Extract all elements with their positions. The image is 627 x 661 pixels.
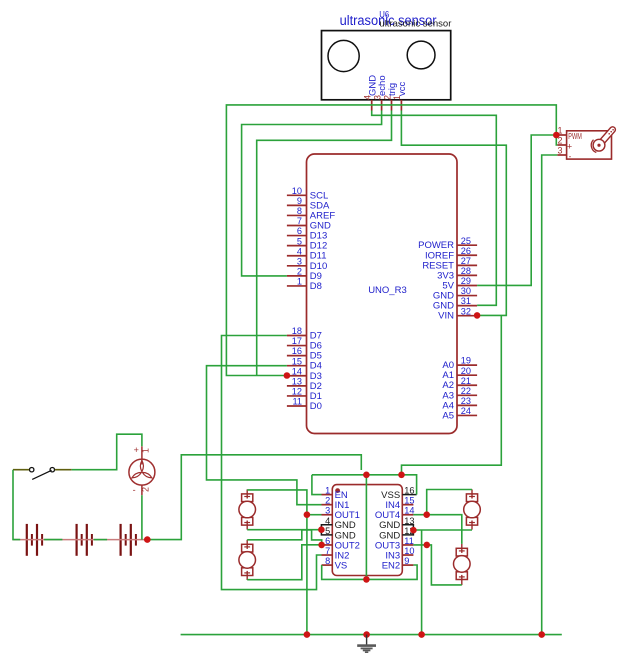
wire driver OUT1 stub link xyxy=(307,514,322,516)
svg-text:+: + xyxy=(134,445,139,455)
svg-text:2: 2 xyxy=(297,266,302,276)
UNO pin 13 (D2) stub xyxy=(287,385,307,387)
svg-text:9: 9 xyxy=(404,556,409,566)
svg-text:14: 14 xyxy=(404,506,414,516)
fan motor M5 blades xyxy=(140,461,143,472)
UNO pin 18 (D7) stub xyxy=(287,335,307,337)
svg-text:PWM: PWM xyxy=(568,131,582,141)
svg-text:30: 30 xyxy=(461,286,471,296)
svg-text:18: 18 xyxy=(292,326,302,336)
svg-text:15: 15 xyxy=(404,496,414,506)
wire motor M1+ to driver OUT1 xyxy=(247,490,307,515)
junction ground rail ground-symbol xyxy=(363,631,370,638)
svg-text:3: 3 xyxy=(557,145,562,155)
UNO pin 3 (D10) stub xyxy=(287,265,307,267)
UNO pin 26 (IOREF) stub xyxy=(457,254,477,256)
wire driver OUT1 to ground rail xyxy=(306,515,308,635)
svg-text:VIN: VIN xyxy=(438,311,454,322)
servo body xyxy=(567,131,612,159)
svg-text:ultrasonic sensor: ultrasonic sensor xyxy=(379,19,451,30)
svg-text:D0: D0 xyxy=(310,401,322,412)
driver pin 8 (VS) stub xyxy=(322,564,333,566)
wire motor M2+ bridge to OUT2 node xyxy=(247,530,322,545)
junction driver OUT2 pin xyxy=(318,542,325,549)
wire ground rail xyxy=(181,634,562,636)
UNO pin 29 (5V) stub xyxy=(457,284,477,286)
wire switch to battery- xyxy=(13,470,20,540)
driver pin 6 (OUT2) stub xyxy=(322,544,333,546)
svg-text:4: 4 xyxy=(297,246,302,256)
driver pin 9 (EN2) stub xyxy=(402,564,413,566)
junction ground rail left xyxy=(304,631,311,638)
fan pin 2 stub xyxy=(141,485,143,495)
svg-text:6: 6 xyxy=(297,226,302,236)
UNO pin 17 (D6) stub xyxy=(287,345,307,347)
svg-text:19: 19 xyxy=(461,356,471,366)
svg-text:13: 13 xyxy=(292,376,302,386)
UNO pin 15 (D4) stub xyxy=(287,365,307,367)
ultrasonic sensor right transducer xyxy=(407,41,435,69)
svg-text:3: 3 xyxy=(297,256,302,266)
UNO pin 27 (RESET) stub xyxy=(457,264,477,266)
UNO pin 22 (A3) stub xyxy=(457,394,477,396)
Arduino UNO_R3 body xyxy=(307,154,458,434)
wire sensor vcc to UNO VIN xyxy=(401,111,506,316)
svg-text:2: 2 xyxy=(325,496,330,506)
switch S1 left contact xyxy=(30,468,34,472)
junction UNO D3 pin xyxy=(284,372,291,379)
svg-text:UNO_R3: UNO_R3 xyxy=(368,285,407,296)
svg-text:8: 8 xyxy=(297,206,302,216)
UNO pin 5 (D12) stub xyxy=(287,245,307,247)
wire right GND bracket to ground rail xyxy=(421,530,423,634)
svg-text:11: 11 xyxy=(292,397,302,407)
UNO pin 12 (D1) stub xyxy=(287,395,307,397)
driver pin 7 (IN2) stub xyxy=(322,554,333,556)
driver pin 2 (IN1) stub xyxy=(322,504,333,506)
battery B1 cells xyxy=(26,524,28,556)
wire sensor echo to UNO D9 xyxy=(242,111,382,276)
UNO pin 1 (D8) stub xyxy=(287,285,307,287)
UNO pin 10 (SCL) stub xyxy=(287,194,307,196)
svg-text:10: 10 xyxy=(404,546,414,556)
svg-text:A5: A5 xyxy=(442,410,454,421)
svg-text:22: 22 xyxy=(461,386,471,396)
sensor pin 2 (trig) stub xyxy=(391,100,393,111)
driver pin 16 (VSS) black stub xyxy=(402,494,416,496)
UNO pin 7 (GND) stub xyxy=(287,225,307,227)
fan pin 1 stub xyxy=(141,446,143,464)
UNO pin 8 (AREF) stub xyxy=(287,214,307,216)
fan motor M5 body xyxy=(129,459,155,485)
UNO pin 31 (GND) stub xyxy=(457,305,477,307)
svg-text:17: 17 xyxy=(292,336,302,346)
junction through-wire top xyxy=(363,472,370,479)
switch S1 right contact xyxy=(50,468,54,472)
svg-text:26: 26 xyxy=(461,246,471,256)
UNO pin 11 (D0) stub xyxy=(287,405,307,407)
UNO pin 25 (POWER) stub xyxy=(457,244,477,246)
wire VSS node rail xyxy=(312,475,417,495)
wire fan pin2 to battery+ xyxy=(141,495,143,539)
svg-text:11: 11 xyxy=(404,536,414,546)
servo horn icon xyxy=(598,130,613,147)
servo pin 1 stub xyxy=(557,134,566,136)
wire battery cell link 2 xyxy=(94,539,107,541)
motor M2 (lower left) xyxy=(242,544,253,552)
wire motor M2- to driver OUT2 pin xyxy=(247,545,322,580)
svg-text:3: 3 xyxy=(372,95,382,100)
junction ground rail mid xyxy=(418,631,425,638)
svg-text:10: 10 xyxy=(292,186,302,196)
sensor pin 3 (echo) stub xyxy=(381,100,383,111)
svg-text:VS: VS xyxy=(335,560,348,571)
svg-text:-: - xyxy=(133,485,136,495)
wire VS-EN2 link xyxy=(322,565,417,579)
UNO pin 20 (A1) stub xyxy=(457,374,477,376)
ultrasonic sensor U6 body xyxy=(322,31,451,100)
svg-text:3: 3 xyxy=(325,506,330,516)
wire sensor GND to UNO GND(31) xyxy=(372,111,497,306)
motor M1 (upper left) xyxy=(242,494,253,502)
UNO pin 23 (A4) stub xyxy=(457,404,477,406)
junction driver OUT1 xyxy=(304,511,311,518)
motor M3 (upper right) xyxy=(466,494,477,502)
junction UNO VIN pin xyxy=(474,312,481,319)
UNO pin 32 (VIN) stub xyxy=(457,315,477,317)
UNO pin 21 (A2) stub xyxy=(457,384,477,386)
wire driver EN riser xyxy=(312,475,322,495)
wire servo pin1 to top bus xyxy=(226,105,556,376)
servo pin 3 stub xyxy=(557,154,566,156)
UNO pin 28 (3V3) stub xyxy=(457,274,477,276)
svg-text:28: 28 xyxy=(461,266,471,276)
junction right GND bracket xyxy=(410,527,417,534)
svg-text:23: 23 xyxy=(461,396,471,406)
svg-text:1: 1 xyxy=(297,277,302,287)
ultrasonic sensor left transducer xyxy=(328,40,359,71)
svg-text:12: 12 xyxy=(292,387,302,397)
junction servo pin1 xyxy=(553,132,560,139)
svg-text:4: 4 xyxy=(363,95,373,100)
UNO pin 9 (SDA) stub xyxy=(287,204,307,206)
junction through-wire bottom xyxy=(363,576,370,583)
wire sensor trig join xyxy=(257,111,392,376)
UNO pin 14 (D3) stub xyxy=(287,375,307,377)
UNO pin 6 (D13) stub xyxy=(287,235,307,237)
svg-text:15: 15 xyxy=(292,356,302,366)
wire VIN branch to driver VSS node xyxy=(402,315,502,474)
UNO pin 2 (D9) stub xyxy=(287,275,307,277)
wire UNO D4 to driver IN1 xyxy=(207,366,322,505)
wire UNO D7 to driver IN2 xyxy=(222,336,322,590)
svg-text:24: 24 xyxy=(461,406,471,416)
wire motor M1- to GND bracket xyxy=(247,529,321,531)
svg-text:5: 5 xyxy=(297,236,302,246)
svg-text:27: 27 xyxy=(461,256,471,266)
UNO pin 4 (D11) stub xyxy=(287,255,307,257)
driver pins 13-12 GND bracket (black) xyxy=(402,525,413,535)
ground symbol xyxy=(366,635,368,645)
wire servo pin1 to pin2 xyxy=(556,135,557,145)
driver pin 14 (OUT4) stub xyxy=(402,514,413,516)
svg-text:+: + xyxy=(567,142,572,152)
junction battery positive xyxy=(144,536,151,543)
svg-text:14: 14 xyxy=(292,366,302,376)
wire driver OUT3 to motor M4- xyxy=(413,545,461,585)
motor M4 (lower right) xyxy=(456,548,467,556)
svg-text:D8: D8 xyxy=(310,281,322,292)
driver pin 10 (IN3) stub xyxy=(402,554,413,556)
switch S1 left pin stub xyxy=(13,469,29,471)
UNO pin 16 (D5) stub xyxy=(287,355,307,357)
svg-text:7: 7 xyxy=(325,546,330,556)
wire switch to fan pin1 xyxy=(72,434,142,470)
wire motor M3- to right GND bracket xyxy=(413,529,472,531)
svg-text:1: 1 xyxy=(392,95,402,100)
svg-text:2: 2 xyxy=(140,487,150,492)
driver pins 4-5 GND bracket (black) xyxy=(321,525,332,535)
junction driver OUT3 pin xyxy=(424,542,431,549)
junction ground rail right xyxy=(538,631,545,638)
wire battery cell link 1 xyxy=(44,539,62,541)
driver pin 1 (EN) stub xyxy=(322,494,333,496)
driver pin 11 (OUT3) stub xyxy=(402,544,413,546)
switch S1 blade xyxy=(32,470,51,479)
svg-text:25: 25 xyxy=(461,236,471,246)
driver pin 15 (IN4) stub xyxy=(402,504,413,506)
svg-text:7: 7 xyxy=(297,216,302,226)
UNO pin 24 (A5) stub xyxy=(457,414,477,416)
battery interconnect stubs xyxy=(13,539,147,541)
svg-text:6: 6 xyxy=(325,536,330,546)
junction left GND bracket xyxy=(318,526,325,533)
svg-text:9: 9 xyxy=(297,196,302,206)
motor driver pin-1 marker dot xyxy=(335,488,340,493)
wire motor M3+ to driver OUT4 xyxy=(427,490,472,515)
wire battery+ riser (dangling end) xyxy=(147,455,361,540)
wire driver OUT4 to motor M4+ xyxy=(413,515,461,544)
driver pin 3 (OUT1) stub xyxy=(322,514,333,516)
wire UNO 5V to servo pin1 xyxy=(477,135,556,285)
servo pin 2 stub xyxy=(557,144,566,146)
sensor pin 4 (GND) stub xyxy=(371,100,373,111)
svg-text:31: 31 xyxy=(461,296,471,306)
UNO pin 19 (A0) stub xyxy=(457,364,477,366)
svg-text:29: 29 xyxy=(461,276,471,286)
svg-text:-: - xyxy=(569,152,572,161)
junction driver OUT4 xyxy=(423,511,430,518)
svg-text:21: 21 xyxy=(461,376,471,386)
junction VSS riser node xyxy=(398,472,405,479)
wire servo pin3 to ground rail xyxy=(542,155,558,635)
svg-text:20: 20 xyxy=(461,366,471,376)
UNO pin 30 (GND) stub xyxy=(457,295,477,297)
wire through-driver vertical xyxy=(365,475,367,580)
svg-text:32: 32 xyxy=(461,306,471,316)
svg-text:8: 8 xyxy=(325,556,330,566)
svg-text:1: 1 xyxy=(140,448,150,453)
svg-text:vcc: vcc xyxy=(397,82,408,97)
svg-text:1: 1 xyxy=(325,486,330,496)
svg-text:2: 2 xyxy=(382,95,392,100)
switch S1 right pin stub xyxy=(55,469,72,471)
svg-text:EN2: EN2 xyxy=(382,560,400,571)
svg-text:16: 16 xyxy=(292,346,302,356)
sensor pin 1 (vcc) stub xyxy=(400,100,402,111)
motor driver U-driver body xyxy=(332,485,402,576)
